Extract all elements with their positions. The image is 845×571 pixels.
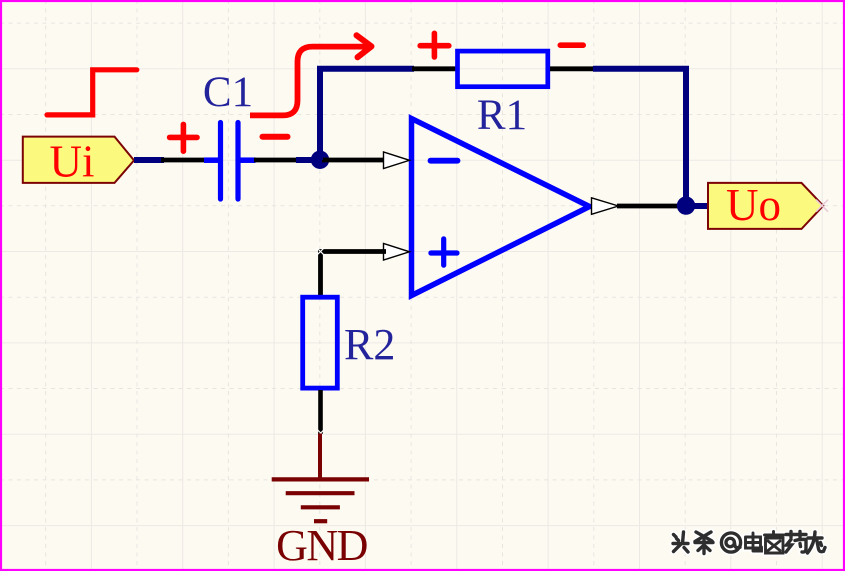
svg-text:GND: GND <box>276 521 368 570</box>
pin: output arrow <box>592 198 619 215</box>
svg-text:Uo: Uo <box>726 180 781 230</box>
annotation: red plus at C1 <box>170 124 197 151</box>
annotation: red curved arrow <box>250 47 370 116</box>
wire: stub into junction (navy) <box>296 157 318 163</box>
wire: C1 to junction (black) <box>254 158 298 163</box>
wire: to R1 left (black) <box>412 66 457 71</box>
label R2 <box>344 320 395 369</box>
annotation: red minus at R1 <box>560 42 583 48</box>
wire: junction to op-amp inverting input (black) <box>322 158 386 163</box>
step input waveform annotation <box>47 70 137 115</box>
resistor R1 <box>458 51 548 87</box>
wire: junction to Uo port (navy) <box>686 203 710 209</box>
pin: inverting input arrow <box>384 152 410 169</box>
wire: non-inverting input (black) <box>321 252 387 299</box>
capacitor C1 <box>204 123 256 200</box>
label R1 <box>477 92 527 139</box>
ground GND <box>272 434 369 522</box>
annotation: red plus at R1 <box>420 33 449 57</box>
svg-text:R1: R1 <box>477 92 527 139</box>
pin: non-inverting input arrow <box>384 244 410 261</box>
port Ui <box>23 136 134 186</box>
svg-text:R2: R2 <box>344 320 395 369</box>
wire: feedback riser (navy) <box>320 69 414 160</box>
wire: output to junction (black) <box>617 204 688 209</box>
watermark <box>673 532 825 554</box>
resistor R2 <box>303 297 338 388</box>
wire: R2 to ground (black) <box>318 390 323 435</box>
corner cross marker <box>317 248 325 256</box>
annotation: red minus at C1 <box>263 134 288 140</box>
port Uo <box>708 180 823 230</box>
op-amp U1 <box>412 119 590 296</box>
svg-text:C1: C1 <box>203 69 253 116</box>
marker: pale cross at Uo tip <box>816 200 828 212</box>
label GND <box>276 521 368 570</box>
node: inverting input junction <box>311 151 329 169</box>
svg-text:Ui: Ui <box>50 136 95 186</box>
annotation: arrow chevron head <box>357 35 372 57</box>
wire: feedback down to output (navy) <box>593 69 686 206</box>
node: output junction <box>677 196 695 214</box>
label C1 <box>203 69 253 116</box>
wire: R1 right (black) <box>550 66 595 71</box>
wire: Ui to C1 (black) <box>161 158 206 163</box>
wire end cross marker <box>317 429 325 437</box>
wire: Ui pin stub (navy) <box>134 157 164 163</box>
